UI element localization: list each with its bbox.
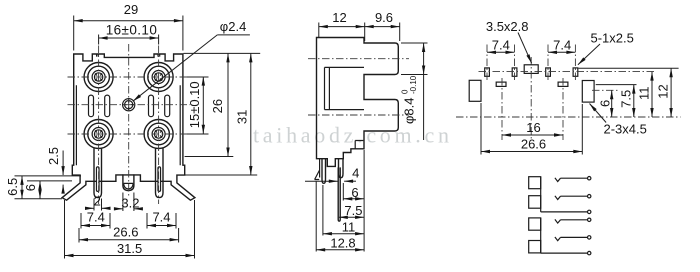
terminal node 3 (ground) [588,210,591,213]
svg-text:26: 26 [210,99,225,113]
svg-text:12.8: 12.8 [330,236,355,251]
dim 7.4 bottom-right [147,213,176,229]
svg-text:7.4: 7.4 [553,38,571,53]
terminal node 6 (ground) [588,251,591,254]
wire bus jack 2 [540,218,542,253]
svg-text:11: 11 [342,220,356,235]
dim 26.6 bottom [79,228,179,243]
dim 11 [322,185,324,236]
jack 2 tip contact square [529,218,541,230]
dim 12 [670,68,672,117]
dim 29 [74,16,183,51]
terminal node 2 [588,195,591,198]
svg-text:6: 6 [23,184,38,191]
svg-text:11: 11 [637,87,652,101]
dim 6.5 left [15,176,82,199]
svg-text:7.5: 7.5 [344,203,362,218]
bottom-right step detail [355,141,363,149]
inner recess [325,67,365,109]
svg-text:2-3x4.5: 2-3x4.5 [604,122,647,137]
side body outline with barrels [317,38,399,167]
tab notches [97,54,160,57]
svg-text:2: 2 [94,194,101,209]
center hole 3.5x2.8 [524,65,538,74]
side pin 1 [322,159,326,184]
φ8.4 dim line [401,43,428,140]
dim 7.4 bottom-left [81,213,110,229]
svg-text:4: 4 [352,165,359,180]
dim 6 left [27,180,72,182]
jack 1 ring contact square [529,196,541,209]
dim 6 [611,90,613,117]
switch contact SW2 [555,196,588,200]
svg-text:26.6: 26.6 [113,224,138,239]
body outline [62,54,195,200]
center bottom tab [123,175,134,191]
right side ext lines [579,68,679,84]
svg-text:2.5: 2.5 [46,147,61,165]
terminal node 4 [588,218,591,221]
svg-text:7.4: 7.4 [152,210,170,225]
dim 2 bottom [94,199,102,211]
svg-text:taihaodz.com.cn: taihaodz.com.cn [253,123,453,148]
switch contact SW1 [555,178,588,182]
svg-text:16±0.10: 16±0.10 [106,22,158,37]
svg-text:7.5: 7.5 [618,90,633,108]
end holes 3x4.5 [469,80,481,101]
switch contact SW3 [555,219,588,223]
svg-text:6.5: 6.5 [5,178,20,196]
dim 12 / 9.6 top [319,23,400,42]
dim 7.5 [339,216,364,218]
dim 16±0.10 [99,35,159,45]
7.4 dims [487,51,515,53]
pin holes 1x2.5 [485,68,490,76]
dim 26.6 [481,103,582,155]
svg-text:6: 6 [351,185,358,200]
long contact pin [338,168,340,221]
side pin 2 [339,159,344,178]
dim 16 [502,134,563,136]
inner side step lines [76,85,180,165]
wire ground jack 1 [541,211,588,213]
svg-text:12: 12 [332,10,346,25]
contact claws in jack holes [95,73,162,137]
svg-text:3.2: 3.2 [121,196,139,211]
dim 26 [184,53,261,156]
svg-text:7.4: 7.4 [492,38,510,53]
center small hole [123,99,135,111]
wire bus jack 1 [540,177,542,212]
dim 15±0.10 [187,77,209,134]
svg-text:9.6: 9.6 [375,10,393,25]
dim 3.2 bottom [123,193,134,212]
svg-text:31: 31 [234,110,249,124]
centerlines [99,44,159,204]
svg-text:-0.10: -0.10 [409,75,418,94]
dim 12.8 [316,150,364,252]
centerlines [308,59,409,115]
jack 2 ring contact square [529,241,541,253]
svg-text:5-1x2.5: 5-1x2.5 [591,31,634,46]
side leg [315,159,320,180]
dim 31 [185,174,258,176]
dim 2.5 left [62,151,64,176]
svg-text:7.4: 7.4 [87,210,105,225]
centerlines [456,72,681,117]
svg-text:26.6: 26.6 [521,137,546,152]
switch contact SW4 [555,237,588,241]
svg-text:29: 29 [124,2,138,17]
svg-text:12: 12 [656,84,671,98]
wire ground jack 2 [541,252,588,254]
svg-text:3.5x2.8: 3.5x2.8 [486,19,529,34]
pin housings + pins [94,149,102,198]
svg-text:16: 16 [526,120,540,135]
terminal node 5 [588,236,591,239]
terminal node 1 [588,177,591,180]
jack circles [84,63,173,149]
dim 4 [305,180,338,182]
dim 31.5 bottom [65,200,195,259]
svg-text:15±0.10: 15±0.10 [187,81,202,128]
dim 6 [342,183,344,201]
svg-text:φ8.4: φ8.4 [402,97,417,124]
dim 7.5 [633,85,635,117]
dim 11 [651,72,653,117]
svg-text:31.5: 31.5 [117,241,142,256]
slots [496,82,506,86]
oval slots [89,95,170,117]
svg-text:φ2.4: φ2.4 [220,19,247,34]
svg-text:6: 6 [597,100,612,107]
jack 1 tip contact square [529,177,541,189]
